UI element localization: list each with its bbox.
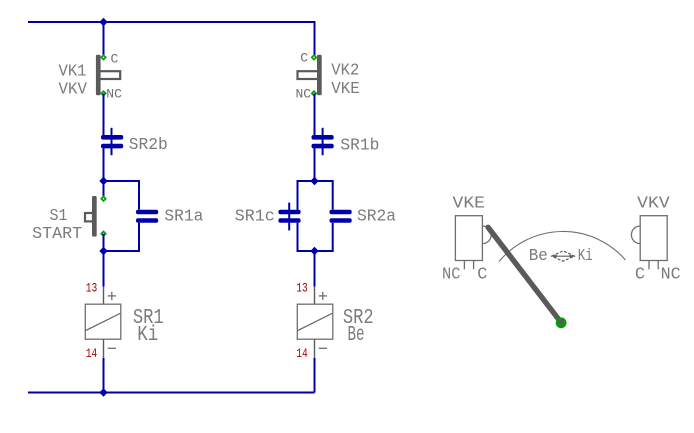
wire top rail [28, 21, 315, 23]
svg-text:Ki: Ki [578, 247, 593, 266]
node junction top-left [99, 18, 107, 26]
pin C of VK2 (green terminal) [311, 54, 318, 61]
pin 14 stub of SR2 [314, 339, 316, 358]
wire SR2a branch top [315, 181, 333, 210]
wire right branch top drop [314, 21, 316, 57]
svg-text:NC: NC [296, 87, 312, 102]
lever arm [488, 227, 561, 322]
pin C of switch VKV [648, 261, 650, 270]
svg-text:SR2a: SR2a [357, 208, 396, 227]
node junction above S1 [99, 177, 107, 185]
wire junction to coil SR2 [314, 251, 316, 287]
pin NC of switch VKE [463, 261, 465, 270]
pivot dot (green) [556, 317, 567, 328]
coil SR1 [85, 304, 121, 339]
contact SR1c [278, 203, 300, 231]
polarity plus of SR1 [108, 292, 116, 300]
pin C of VK1 (green terminal) [100, 54, 107, 61]
wire S1 bottom terminal to junction [103, 234, 105, 251]
pin 14 stub of SR1 [103, 339, 105, 358]
coil SR2 [297, 304, 333, 339]
pin NC of VK2 (green terminal) [311, 90, 318, 97]
pin bottom of S1 (green terminal) [100, 230, 107, 237]
wire SR2a branch bottom [315, 223, 333, 251]
svg-text:NC: NC [106, 87, 122, 102]
pin NC of VK1 (green terminal) [100, 90, 107, 97]
svg-text:SR1c: SR1c [235, 208, 275, 227]
wire SR1c branch top [298, 181, 315, 210]
svg-text:S1: S1 [50, 207, 68, 226]
arc Be-Ki travel path [499, 231, 626, 261]
svg-text:14: 14 [296, 346, 308, 361]
wire junction to coil SR1 [103, 251, 105, 287]
svg-text:NC: NC [442, 266, 461, 285]
polarity minus of SR2 [319, 347, 327, 349]
polarity plus of SR2 [319, 292, 327, 300]
wire SR1c branch bottom [298, 223, 315, 251]
node junction top of right loop [310, 177, 318, 185]
svg-text:NC: NC [661, 266, 681, 285]
wire coil SR2 to bottom rail [314, 358, 316, 393]
svg-text:SR2b: SR2b [129, 136, 168, 155]
svg-text:C: C [635, 266, 645, 285]
pin top of S1 (green terminal) [100, 195, 107, 202]
contact SR1a [136, 210, 158, 223]
contact SR2a [330, 210, 352, 223]
symbol double arrow [552, 251, 575, 261]
svg-text:C: C [477, 266, 487, 285]
switch VKV body [640, 216, 667, 261]
contact SR1b [312, 128, 334, 155]
wire left branch to VK1 C [103, 22, 105, 57]
wire coil SR1 to bottom rail [103, 358, 105, 393]
pin 13 stub of SR1 [103, 287, 105, 305]
pin 13 stub of SR2 [314, 287, 316, 305]
pushbutton S1 body [85, 196, 97, 237]
contact VK2/VKE microswitch body [298, 55, 322, 95]
svg-text:C: C [300, 50, 308, 65]
wire SR1b to right loop junction [314, 148, 316, 181]
svg-text:VK1: VK1 [59, 62, 87, 81]
svg-text:C: C [111, 51, 119, 66]
svg-text:VKV: VKV [637, 194, 670, 213]
svg-text:VKV: VKV [59, 81, 88, 100]
switch VKV button [631, 226, 640, 244]
wire VK1 NC to SR2b [103, 93, 105, 135]
wire SR2b to S1 junction [103, 148, 105, 181]
node junction bottom of right loop [310, 247, 318, 255]
wire SR1a branch bottom [104, 223, 140, 251]
wire bottom rail [28, 392, 315, 394]
svg-text:14: 14 [86, 346, 98, 361]
pin C of switch VKE [473, 261, 475, 270]
svg-text:Be: Be [348, 324, 365, 347]
contact VK1/VKV microswitch body [96, 55, 120, 95]
svg-text:Be: Be [529, 247, 548, 266]
svg-text:VK2: VK2 [331, 62, 359, 81]
svg-text:START: START [32, 225, 82, 244]
svg-text:Ki: Ki [137, 324, 158, 347]
pin NC of switch VKV [657, 261, 659, 270]
wire SR1a branch top [104, 181, 140, 210]
svg-text:13: 13 [86, 281, 98, 296]
wire junction to S1 top terminal [103, 181, 105, 199]
switch VKE body [455, 216, 482, 261]
switch VKE button [482, 226, 491, 244]
svg-text:SR1a: SR1a [164, 208, 203, 227]
svg-text:13: 13 [296, 281, 308, 296]
node junction bottom-left [99, 388, 107, 396]
polarity minus of SR1 [108, 347, 116, 349]
contact SR2b [101, 128, 123, 155]
wire VK2 NC to SR1b [314, 93, 316, 135]
svg-text:VKE: VKE [331, 80, 360, 99]
svg-text:VKE: VKE [453, 194, 486, 213]
svg-text:SR1b: SR1b [340, 136, 379, 155]
node junction below S1 [99, 247, 107, 255]
